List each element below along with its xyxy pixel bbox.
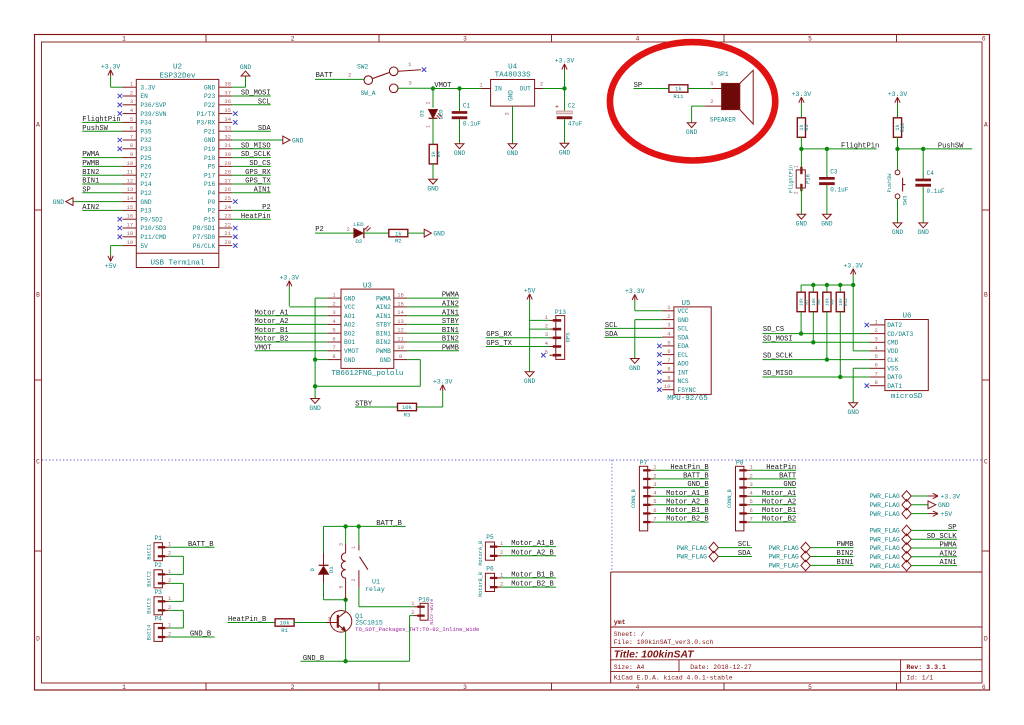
svg-text:VCC: VCC — [678, 308, 689, 315]
svg-text:GND: GND — [796, 221, 808, 228]
svg-text:P8: P8 — [736, 460, 744, 467]
svg-text:B: B — [36, 291, 40, 298]
svg-text:GND: GND — [559, 150, 571, 157]
svg-text:BATT_B: BATT_B — [376, 520, 402, 528]
svg-text:6: 6 — [332, 335, 335, 342]
svg-text:FlightPin: FlightPin — [789, 165, 795, 193]
svg-text:Size: A4: Size: A4 — [614, 664, 645, 671]
svg-text:GND_B: GND_B — [687, 481, 708, 489]
svg-text:PushSW: PushSW — [887, 173, 893, 193]
svg-text:33: 33 — [224, 125, 231, 132]
svg-text:MotorA_B: MotorA_B — [478, 541, 484, 566]
svg-text:Sheet: /: Sheet: / — [614, 631, 645, 638]
svg-text:7: 7 — [667, 357, 670, 364]
svg-text:A: A — [36, 121, 40, 128]
svg-text:2: 2 — [291, 36, 295, 43]
svg-text:AIN1: AIN1 — [376, 313, 391, 320]
svg-text:2: 2 — [130, 89, 133, 96]
svg-text:SD_CS: SD_CS — [763, 326, 784, 334]
svg-text:FlightPin: FlightPin — [82, 116, 120, 124]
svg-text:5: 5 — [808, 684, 812, 691]
svg-text:GND: GND — [507, 150, 519, 157]
svg-text:Motor_A1: Motor_A1 — [255, 309, 289, 317]
svg-text:CLK: CLK — [887, 357, 898, 364]
svg-text:HeatPin: HeatPin — [766, 464, 796, 472]
svg-text:PWR_FLAG: PWR_FLAG — [769, 563, 799, 570]
svg-text:2: 2 — [332, 300, 335, 307]
svg-text:P5: P5 — [486, 534, 494, 541]
svg-text:3: 3 — [463, 36, 467, 43]
svg-text:Motor_A1: Motor_A1 — [762, 490, 796, 498]
svg-text:VDD: VDD — [887, 348, 898, 355]
svg-text:SD_CS: SD_CS — [249, 160, 270, 168]
svg-text:10: 10 — [664, 383, 671, 390]
svg-text:5: 5 — [545, 349, 548, 356]
svg-text:8: 8 — [874, 379, 877, 386]
svg-text:P11/CMD: P11/CMD — [140, 234, 166, 241]
svg-text:Motor_A2: Motor_A2 — [762, 498, 796, 506]
svg-text:0.1uF: 0.1uF — [830, 187, 848, 194]
svg-text:PWMA: PWMA — [376, 295, 391, 302]
svg-text:SDA: SDA — [258, 125, 272, 133]
svg-text:D2: D2 — [355, 238, 362, 245]
svg-text:3: 3 — [874, 336, 877, 343]
svg-text:+3.3V: +3.3V — [101, 64, 121, 71]
svg-text:7: 7 — [130, 133, 133, 140]
svg-text:GND: GND — [204, 84, 215, 91]
svg-text:+5V: +5V — [105, 263, 117, 270]
svg-text:GPS: GPS — [565, 332, 572, 343]
svg-text:AO1: AO1 — [344, 313, 355, 320]
svg-text:2: 2 — [500, 581, 503, 588]
svg-text:P3: P3 — [154, 589, 162, 596]
svg-text:16: 16 — [127, 213, 134, 220]
svg-text:SPEAKER: SPEAKER — [710, 117, 736, 124]
svg-text:SCL: SCL — [678, 326, 689, 333]
svg-text:Motor_B2: Motor_B2 — [762, 516, 796, 524]
svg-text:6: 6 — [982, 36, 986, 43]
svg-text:GND: GND — [848, 409, 860, 416]
svg-text:C1: C1 — [463, 103, 471, 110]
svg-text:BIN1: BIN1 — [442, 327, 459, 335]
svg-text:R5: R5 — [804, 124, 810, 130]
svg-text:4: 4 — [636, 36, 640, 43]
svg-text:6: 6 — [982, 684, 986, 691]
svg-text:P4: P4 — [208, 190, 216, 197]
svg-text:2: 2 — [411, 609, 414, 616]
svg-text:BATT_B: BATT_B — [188, 541, 214, 549]
svg-text:+3.3V: +3.3V — [625, 288, 645, 295]
svg-text:Motor_A1_B: Motor_A1_B — [511, 540, 554, 548]
svg-text:8: 8 — [667, 366, 670, 373]
svg-text:5: 5 — [808, 36, 812, 43]
svg-text:PWMB: PWMB — [376, 348, 391, 355]
svg-text:PWR_FLAG: PWR_FLAG — [870, 493, 900, 500]
svg-text:A: A — [984, 121, 988, 128]
svg-text:PWR_FLAG: PWR_FLAG — [870, 563, 900, 570]
svg-text:GND_B: GND_B — [190, 631, 211, 639]
svg-text:P36/SVP: P36/SVP — [140, 102, 166, 109]
svg-text:Motor_B2: Motor_B2 — [255, 336, 289, 344]
svg-text:GPS_TX: GPS_TX — [245, 178, 271, 186]
svg-text:SP1: SP1 — [717, 71, 728, 78]
svg-text:3: 3 — [130, 98, 133, 105]
svg-text:PWR_FLAG: PWR_FLAG — [870, 545, 900, 552]
svg-text:P35: P35 — [140, 128, 151, 135]
svg-text:P14: P14 — [140, 181, 151, 188]
svg-text:CONN_B: CONN_B — [727, 489, 733, 508]
svg-text:9: 9 — [399, 353, 402, 360]
svg-text:2: 2 — [168, 630, 171, 637]
svg-text:CD/DAT3: CD/DAT3 — [887, 331, 913, 338]
svg-text:P13: P13 — [140, 208, 151, 215]
svg-text:2: 2 — [168, 604, 171, 611]
svg-text:3: 3 — [667, 322, 670, 329]
svg-text:P0: P0 — [208, 199, 216, 206]
svg-text:6: 6 — [653, 507, 656, 514]
svg-text:3: 3 — [338, 543, 344, 546]
svg-text:GND_B: GND_B — [303, 655, 324, 663]
svg-text:BIN1: BIN1 — [376, 330, 391, 337]
svg-text:2: 2 — [348, 71, 352, 78]
svg-text:10: 10 — [397, 344, 404, 351]
svg-text:CONN_B: CONN_B — [631, 489, 637, 508]
svg-text:31: 31 — [224, 142, 231, 149]
svg-text:SCL: SCL — [258, 98, 271, 106]
svg-text:GND: GND — [309, 405, 321, 412]
svg-text:D1: D1 — [328, 566, 335, 573]
svg-text:U5: U5 — [681, 300, 691, 308]
svg-text:2: 2 — [667, 313, 670, 320]
svg-text:1: 1 — [351, 546, 357, 549]
svg-text:PWR_FLAG: PWR_FLAG — [870, 511, 900, 518]
svg-text:GND: GND — [433, 230, 445, 237]
svg-text:2: 2 — [710, 98, 714, 105]
svg-text:GND: GND — [140, 199, 151, 206]
svg-text:28: 28 — [224, 169, 231, 176]
svg-text:GND: GND — [629, 365, 641, 372]
svg-text:VMOT: VMOT — [255, 344, 272, 352]
svg-text:P6: P6 — [486, 566, 494, 573]
svg-text:PWMB: PWMB — [442, 344, 459, 352]
svg-text:3: 3 — [504, 112, 511, 116]
svg-text:14: 14 — [397, 309, 404, 316]
svg-text:7: 7 — [653, 516, 656, 523]
svg-text:14: 14 — [127, 195, 134, 202]
svg-text:PushSW: PushSW — [82, 125, 108, 133]
svg-text:26: 26 — [224, 186, 231, 193]
svg-text:Batt4: Batt4 — [147, 625, 153, 641]
svg-text:ECL: ECL — [678, 352, 689, 359]
svg-text:SP: SP — [82, 186, 91, 194]
svg-text:GND: GND — [524, 378, 536, 385]
svg-text:18: 18 — [127, 230, 134, 237]
svg-text:R11: R11 — [673, 93, 684, 100]
svg-text:P21: P21 — [204, 128, 215, 135]
svg-text:+: + — [555, 103, 559, 110]
svg-text:P32: P32 — [140, 137, 151, 144]
svg-text:BATT_B: BATT_B — [683, 473, 709, 481]
svg-text:Motor_A2_B: Motor_A2_B — [511, 549, 554, 557]
svg-text:P2: P2 — [154, 562, 162, 569]
svg-text:3: 3 — [408, 80, 412, 87]
svg-text:PWR_FLAG: PWR_FLAG — [870, 502, 900, 509]
svg-text:6: 6 — [667, 348, 670, 355]
svg-text:P5: P5 — [208, 164, 216, 171]
svg-text:R12: R12 — [844, 298, 849, 306]
svg-text:P8/SD1: P8/SD1 — [193, 225, 216, 232]
svg-text:TB6612FNG_pololu: TB6612FNG_pololu — [331, 370, 403, 378]
svg-text:BO1: BO1 — [344, 339, 355, 346]
svg-text:P3/RX: P3/RX — [197, 120, 216, 127]
svg-text:P34: P34 — [140, 120, 151, 127]
svg-text:2: 2 — [545, 323, 548, 330]
svg-text:PWMA: PWMA — [82, 151, 100, 159]
svg-text:GPS_RX: GPS_RX — [245, 169, 271, 177]
svg-text:AIN2: AIN2 — [442, 301, 459, 309]
svg-text:VCC: VCC — [344, 304, 355, 311]
svg-text:AIN1: AIN1 — [442, 309, 459, 317]
svg-text:0.1uF: 0.1uF — [463, 121, 481, 128]
svg-text:SCL: SCL — [738, 541, 751, 549]
svg-text:P1: P1 — [154, 535, 162, 542]
svg-text:SW_A: SW_A — [361, 90, 376, 97]
svg-text:P15: P15 — [204, 216, 215, 223]
svg-text:1: 1 — [710, 80, 714, 87]
svg-text:P18: P18 — [204, 155, 215, 162]
svg-text:7: 7 — [749, 516, 752, 523]
svg-text:2: 2 — [168, 550, 171, 557]
svg-text:R3: R3 — [404, 411, 411, 418]
svg-text:9: 9 — [667, 374, 670, 381]
svg-text:Motor_B2_B: Motor_B2_B — [511, 581, 554, 589]
svg-text:37: 37 — [224, 89, 231, 96]
svg-text:36: 36 — [224, 98, 231, 105]
svg-text:GND: GND — [344, 295, 355, 302]
svg-text:+5V: +5V — [941, 511, 953, 518]
svg-text:PWR_FLAG: PWR_FLAG — [677, 545, 707, 552]
svg-text:Motor_A2: Motor_A2 — [255, 318, 289, 326]
svg-text:Motor_A1_B: Motor_A1_B — [666, 490, 709, 498]
svg-text:11: 11 — [127, 169, 134, 176]
svg-text:+3.3V: +3.3V — [555, 58, 575, 65]
svg-text:HeatPin_B: HeatPin_B — [670, 464, 708, 472]
svg-text:27: 27 — [224, 177, 231, 184]
svg-text:HeatPin: HeatPin — [241, 213, 271, 221]
svg-text:R4: R4 — [436, 151, 442, 157]
svg-text:MPU-92/65: MPU-92/65 — [667, 395, 708, 403]
svg-text:10k: 10k — [280, 620, 291, 627]
svg-text:PushSW: PushSW — [938, 143, 964, 151]
svg-text:CMD: CMD — [887, 340, 898, 347]
svg-text:C: C — [984, 458, 988, 465]
svg-text:30: 30 — [224, 151, 231, 158]
svg-text:P33: P33 — [140, 146, 151, 153]
svg-text:P22: P22 — [204, 102, 215, 109]
svg-text:3: 3 — [545, 331, 548, 338]
svg-text:25: 25 — [224, 195, 231, 202]
svg-text:FSYNC: FSYNC — [678, 387, 697, 394]
svg-text:IN: IN — [494, 86, 502, 93]
svg-text:R1: R1 — [281, 627, 288, 634]
svg-text:D3: D3 — [419, 110, 426, 117]
svg-text:34: 34 — [224, 116, 231, 123]
svg-text:P19: P19 — [204, 146, 215, 153]
svg-text:Batt3: Batt3 — [147, 598, 153, 614]
svg-text:R9: R9 — [831, 299, 836, 305]
svg-text:SD_SCLK: SD_SCLK — [241, 151, 272, 159]
svg-text:SD_MISO: SD_MISO — [241, 142, 271, 150]
svg-text:2: 2 — [347, 227, 350, 233]
svg-text:BIN2: BIN2 — [376, 339, 391, 346]
svg-text:STBY: STBY — [376, 322, 391, 329]
svg-text:Motor_B2_B: Motor_B2_B — [666, 516, 709, 524]
svg-text:P10/SD3: P10/SD3 — [140, 225, 166, 232]
svg-text:MotorB_B: MotorB_B — [478, 572, 484, 597]
svg-text:P17: P17 — [204, 172, 215, 179]
svg-text:GND: GND — [427, 186, 439, 193]
svg-text:KiCad E.D.A. kicad 4.0.1-stab: KiCad E.D.A. kicad 4.0.1-stable — [614, 675, 733, 682]
svg-text:P2: P2 — [208, 208, 216, 215]
svg-text:+3.3V: +3.3V — [280, 274, 300, 281]
svg-text:Motor_A2_B: Motor_A2_B — [666, 498, 709, 506]
svg-text:D: D — [36, 635, 40, 642]
svg-text:GND: GND — [686, 129, 698, 136]
svg-text:U1: U1 — [372, 579, 380, 586]
svg-text:Motor_B1_B: Motor_B1_B — [666, 507, 709, 515]
svg-text:0.1uF: 0.1uF — [927, 188, 945, 195]
svg-text:+3.3V: +3.3V — [888, 91, 908, 98]
svg-text:GND: GND — [344, 357, 355, 364]
svg-text:13: 13 — [127, 186, 134, 193]
svg-text:P27: P27 — [140, 172, 151, 179]
svg-text:47uF: 47uF — [568, 121, 583, 128]
svg-text:32: 32 — [224, 133, 231, 140]
svg-text:NiCr-Wire: NiCr-Wire — [429, 599, 435, 625]
svg-text:P23: P23 — [204, 93, 215, 100]
svg-text:PWMA: PWMA — [939, 542, 957, 550]
svg-text:P16: P16 — [805, 174, 812, 184]
svg-text:5: 5 — [130, 116, 133, 123]
svg-text:GND: GND — [240, 64, 252, 71]
svg-text:5V: 5V — [140, 243, 148, 250]
svg-text:SW3: SW3 — [902, 195, 909, 205]
svg-text:7: 7 — [874, 370, 877, 377]
svg-text:Date: 2018-12-27: Date: 2018-12-27 — [690, 664, 752, 671]
svg-text:AIN2: AIN2 — [939, 550, 956, 558]
svg-text:AIN2: AIN2 — [82, 204, 99, 212]
svg-text:1: 1 — [408, 61, 412, 68]
svg-text:1: 1 — [122, 684, 126, 691]
svg-text:2: 2 — [749, 472, 752, 479]
svg-text:P10: P10 — [418, 597, 429, 604]
svg-text:TA48033S: TA48033S — [495, 72, 532, 80]
svg-text:+5V: +5V — [524, 288, 536, 295]
svg-text:19: 19 — [127, 239, 134, 246]
svg-text:EN: EN — [140, 93, 148, 100]
svg-text:ymt: ymt — [614, 619, 626, 626]
svg-text:GND: GND — [507, 90, 514, 101]
svg-text:6: 6 — [749, 507, 752, 514]
svg-text:23: 23 — [224, 213, 231, 220]
svg-text:8: 8 — [130, 142, 133, 149]
svg-text:PWR_FLAG: PWR_FLAG — [870, 554, 900, 561]
svg-text:GND: GND — [678, 317, 689, 324]
svg-text:DAT0: DAT0 — [887, 374, 902, 381]
svg-text:PWMA: PWMA — [442, 292, 460, 300]
svg-text:EDA: EDA — [678, 343, 689, 350]
svg-text:6: 6 — [130, 125, 133, 132]
svg-text:21: 21 — [224, 230, 231, 237]
svg-text:U4: U4 — [508, 63, 518, 71]
svg-text:Rev: 3.3.1: Rev: 3.3.1 — [906, 664, 946, 671]
svg-text:C4: C4 — [927, 170, 935, 177]
svg-text:17: 17 — [127, 221, 134, 228]
svg-text:Batt2: Batt2 — [147, 571, 153, 587]
svg-text:PWR_FLAG: PWR_FLAG — [677, 554, 707, 561]
svg-text:5: 5 — [874, 353, 877, 360]
svg-text:relay: relay — [365, 586, 385, 593]
svg-text:P4: P4 — [154, 616, 162, 623]
svg-text:2: 2 — [653, 472, 656, 479]
svg-text:Batt1: Batt1 — [147, 544, 153, 560]
svg-text:35: 35 — [224, 107, 231, 114]
svg-text:File: 100kinSAT_ver3.0.sch: File: 100kinSAT_ver3.0.sch — [614, 639, 714, 646]
svg-text:DAT2: DAT2 — [887, 322, 902, 329]
svg-text:2: 2 — [168, 577, 171, 584]
svg-text:12: 12 — [397, 327, 404, 334]
svg-text:3: 3 — [749, 481, 752, 488]
svg-text:Motor_B1_B: Motor_B1_B — [511, 572, 554, 580]
svg-text:2: 2 — [500, 549, 503, 556]
svg-text:B: B — [984, 291, 988, 298]
svg-text:3.3V: 3.3V — [140, 84, 155, 91]
svg-text:P16: P16 — [204, 181, 215, 188]
svg-text:12: 12 — [127, 177, 134, 184]
svg-text:GND: GND — [53, 199, 65, 206]
svg-text:PWMB: PWMB — [82, 160, 99, 168]
svg-text:BATT: BATT — [779, 473, 796, 481]
svg-text:BIN1: BIN1 — [836, 559, 853, 567]
svg-text:microSD: microSD — [891, 393, 923, 401]
svg-text:5: 5 — [667, 339, 670, 346]
svg-text:P2: P2 — [262, 204, 271, 212]
svg-text:1k: 1k — [675, 86, 682, 93]
svg-text:15: 15 — [397, 300, 404, 307]
svg-text:C2: C2 — [568, 103, 576, 110]
svg-text:1k: 1k — [395, 230, 402, 237]
svg-text:+3.3V: +3.3V — [433, 378, 453, 385]
svg-text:BIN2: BIN2 — [836, 550, 853, 558]
svg-text:10k: 10k — [402, 404, 413, 411]
svg-text:8: 8 — [332, 353, 335, 360]
svg-text:TO_SOT_Packages_THT:TO-92_Inli: TO_SOT_Packages_THT:TO-92_Inline_Wide — [355, 626, 479, 633]
svg-text:5: 5 — [338, 585, 344, 588]
svg-text:GND: GND — [292, 137, 304, 144]
svg-text:AIN2: AIN2 — [376, 304, 391, 311]
svg-text:24: 24 — [224, 204, 231, 211]
svg-text:6: 6 — [874, 362, 877, 369]
svg-text:SD_SCLK: SD_SCLK — [927, 533, 958, 541]
svg-text:BIN1: BIN1 — [82, 178, 99, 186]
svg-text:7: 7 — [332, 344, 335, 351]
svg-text:DAT1: DAT1 — [887, 383, 902, 390]
svg-text:R8: R8 — [817, 299, 822, 305]
svg-text:GND: GND — [938, 502, 950, 509]
svg-text:OUT: OUT — [520, 86, 531, 93]
svg-text:1: 1 — [365, 227, 368, 233]
svg-text:16: 16 — [397, 292, 404, 299]
